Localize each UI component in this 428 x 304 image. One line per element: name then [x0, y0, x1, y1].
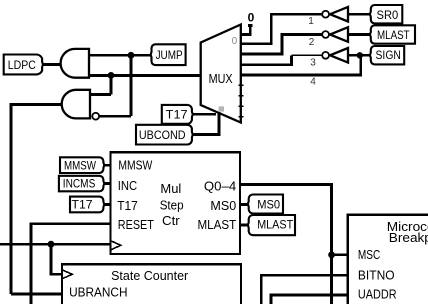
svg-text:MLAST: MLAST: [377, 28, 410, 42]
junction node B: [108, 72, 115, 79]
svg-text:Step: Step: [160, 198, 184, 213]
wire net A: U1 input to JUMP tag: [89, 54, 152, 57]
wire Q0-4 net down: [240, 184, 332, 304]
U2 inverting bubble: [92, 113, 99, 120]
svg-text:0: 0: [232, 36, 238, 47]
svg-text:State Counter: State Counter: [111, 268, 189, 283]
wire mux pin3 to inverter V3: [241, 55, 292, 65]
wire V2 to tag: [348, 33, 371, 36]
input tag MMSW: [60, 157, 104, 173]
svg-text:UBRANCH: UBRANCH: [69, 285, 127, 300]
wire RESET net: [31, 224, 110, 304]
svg-text:0: 0: [248, 10, 255, 24]
wire UBCOND to mux: [192, 112, 219, 135]
wire mux pin2 to inverter V2: [241, 35, 322, 54]
svg-text:MS0: MS0: [210, 198, 236, 213]
wire UBRANCH net: [11, 292, 62, 295]
svg-text:JUMP: JUMP: [156, 48, 183, 62]
U5 clock chevron: [62, 270, 72, 279]
wire V3 to tag: [348, 54, 371, 57]
inverter V3: [330, 48, 348, 63]
inverter V1: [330, 7, 348, 22]
svg-text:MMSW: MMSW: [64, 160, 96, 172]
svg-text:MMSW: MMSW: [118, 158, 152, 173]
svg-text:T17: T17: [117, 198, 138, 213]
input tag INCMS: [59, 176, 104, 192]
input tag MLAST (top): [370, 25, 415, 43]
U4 clock chevron: [110, 241, 120, 250]
svg-text:T17: T17: [166, 107, 188, 121]
svg-text:SIGN: SIGN: [376, 48, 401, 62]
svg-text:UBCOND: UBCOND: [139, 128, 186, 142]
output tag JUMP: [151, 44, 186, 65]
mux edge tick marks: [238, 85, 243, 116]
and-gate U1 (mirrored, facing left): [61, 49, 89, 78]
svg-text:3: 3: [310, 57, 316, 68]
svg-text:RESET: RESET: [118, 217, 154, 232]
wire mux pin1 to inverter V1: [241, 14, 322, 44]
output tag MLAST (counter): [248, 215, 295, 235]
svg-text:MLAST: MLAST: [198, 217, 237, 232]
nand-gate U2 (mirrored, facing left): [62, 90, 90, 119]
input tag T17 (counter): [70, 197, 104, 213]
input tag SIGN: [370, 46, 404, 64]
wire LDPC to U1 output: [42, 63, 62, 66]
svg-text:T17: T17: [72, 200, 93, 212]
inverter V2 bubble: [322, 31, 329, 38]
svg-text:4: 4: [310, 77, 316, 88]
block U5 State Counter: [62, 264, 241, 304]
svg-text:SR0: SR0: [377, 8, 399, 22]
svg-text:Ctr: Ctr: [162, 213, 180, 228]
wire mux pin4 to SIGN node: [241, 55, 361, 75]
svg-text:Q0–4: Q0–4: [204, 179, 236, 194]
block U6 Microcode Breakpoint: [348, 215, 428, 304]
svg-text:2: 2: [309, 37, 315, 48]
inverter V1 bubble: [322, 11, 329, 18]
svg-text:Mul: Mul: [160, 181, 181, 196]
svg-text:BITNO: BITNO: [358, 268, 395, 283]
svg-text:1: 1: [308, 16, 314, 27]
wire node B down to U2 input: [90, 75, 111, 94]
svg-text:INC: INC: [118, 178, 137, 193]
mux U3 body: [201, 25, 241, 123]
constant 0 stub on mux pin 0: [241, 25, 253, 36]
wire T17 stub: [104, 203, 111, 206]
wire clock branch to state counter: [51, 244, 62, 274]
wire MMSW stub: [104, 164, 111, 167]
wire MLAST stub: [240, 223, 249, 226]
wire T17 to mux: [192, 113, 216, 116]
wire BITNO: [261, 275, 348, 304]
wire V1 to tag: [348, 13, 371, 16]
wire MSC: [332, 253, 348, 256]
gray selection handle: [219, 106, 224, 111]
wire MS0 stub: [240, 203, 249, 206]
junction clock node: [48, 241, 55, 248]
output tag MS0: [248, 195, 283, 214]
svg-text:Breakpoint: Breakpoint: [389, 230, 428, 245]
wire UADDR: [271, 295, 348, 304]
junction MSC node: [328, 251, 335, 258]
output tag LDPC: [4, 55, 43, 75]
svg-text:INCMS: INCMS: [63, 179, 96, 191]
inverter V2: [330, 27, 348, 42]
wire clock net: [0, 243, 110, 246]
wire net B: U1 lower input to MUX output: [89, 74, 201, 77]
svg-text:UADDR: UADDR: [358, 287, 397, 302]
block U4 Mul Step Ctr: [110, 152, 240, 254]
junction node SIGN/pin4: [357, 52, 363, 58]
input tag T17 (to mux): [162, 105, 193, 124]
wire U2 output left and down: [11, 104, 62, 294]
wire INCMS stub: [104, 182, 111, 185]
svg-text:MUX: MUX: [209, 72, 234, 86]
svg-text:MSC: MSC: [358, 247, 380, 262]
svg-text:MS0: MS0: [257, 197, 280, 211]
svg-text:LDPC: LDPC: [8, 58, 36, 72]
input tag UBCOND: [136, 125, 193, 145]
input tag SR0: [370, 5, 402, 23]
svg-text:MLAST: MLAST: [257, 218, 294, 232]
junction node A: [128, 52, 135, 59]
wire node A down to U2 bubble input: [99, 55, 131, 116]
inverter V3 bubble: [322, 52, 329, 59]
